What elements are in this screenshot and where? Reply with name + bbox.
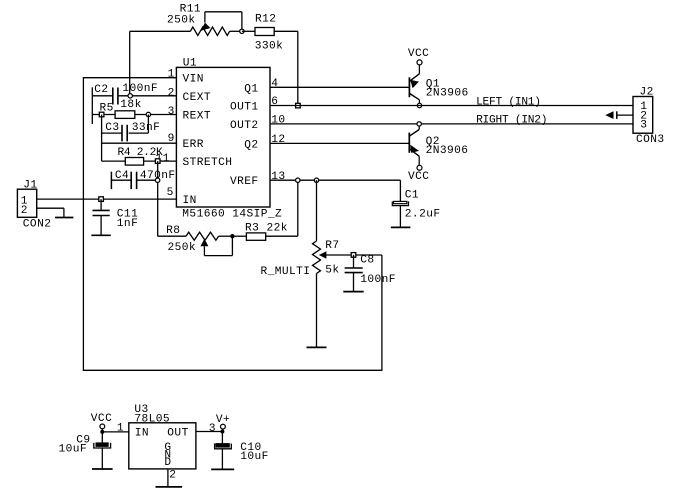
potentiometer R11 250k: [167, 4, 242, 36]
resistor R5 18k: [92, 99, 176, 118]
node Q1 collector junction: [417, 103, 421, 107]
resistor R4 2.2K: [102, 147, 177, 165]
potentiometer R8 250k: [166, 225, 232, 256]
svg-text:330k: 330k: [255, 40, 284, 52]
svg-text:C4: C4: [115, 170, 129, 182]
svg-text:STRETCH: STRETCH: [183, 157, 233, 169]
svg-text:3: 3: [209, 423, 216, 435]
svg-text:LEFT (IN1): LEFT (IN1): [476, 96, 541, 108]
svg-text:3: 3: [640, 120, 647, 132]
svg-text:RIGHT (IN2): RIGHT (IN2): [476, 114, 547, 126]
power VCC Q1: [408, 48, 429, 65]
svg-text:VIN: VIN: [183, 74, 204, 86]
power VCC Q2: [408, 165, 429, 183]
wire ERR pin9: [102, 142, 177, 144]
wire U3 pin3 to V+: [196, 423, 223, 435]
svg-text:2.2uF: 2.2uF: [405, 208, 441, 220]
svg-text:Q2: Q2: [244, 139, 258, 151]
node R5 left junction: [99, 112, 104, 117]
svg-text:R12: R12: [255, 14, 276, 26]
node R5 right junction: [146, 112, 150, 116]
power VCC regulator input: [91, 413, 112, 432]
svg-text:1: 1: [117, 423, 124, 435]
node R8/R3 junction: [230, 234, 234, 238]
connector J2 CON3: [633, 87, 665, 147]
svg-text:12: 12: [271, 134, 285, 146]
svg-text:VREF: VREF: [230, 176, 259, 188]
connector J1 CON2: [17, 179, 51, 230]
wire R12 to OUT1: [297, 31, 299, 105]
svg-text:U1: U1: [183, 58, 197, 70]
wire R3 to VREF: [297, 180, 299, 236]
svg-text:VCC: VCC: [91, 413, 112, 425]
svg-text:5: 5: [167, 187, 174, 199]
wire U3 pin2 to ground: [168, 469, 177, 487]
svg-text:REXT: REXT: [183, 111, 212, 123]
ground C1: [391, 226, 411, 228]
wire OUT2 pin10 RIGHT net: [270, 123, 633, 125]
svg-text:1nF: 1nF: [117, 218, 138, 230]
wire pin12 to Q2 base: [270, 142, 409, 144]
ground C10: [211, 468, 234, 470]
capacitor C2 100nF: [92, 83, 176, 104]
wire VIN left vertical: [82, 77, 84, 370]
svg-text:33nF: 33nF: [132, 122, 161, 134]
svg-text:10uF: 10uF: [59, 444, 88, 456]
wire R11 left vertical to CEXT: [129, 31, 131, 96]
capacitor C11 1nF: [93, 199, 139, 235]
svg-text:C2: C2: [94, 84, 108, 96]
svg-text:R8: R8: [166, 225, 180, 237]
svg-text:CEXT: CEXT: [183, 92, 212, 104]
node CEXT junction: [128, 94, 132, 98]
node VREF junction 2: [314, 178, 318, 182]
svg-text:J2: J2: [640, 87, 654, 99]
net label RIGHT (IN2): [476, 114, 547, 126]
wire VIN pin1: [83, 77, 176, 79]
svg-text:78L05: 78L05: [134, 413, 170, 425]
wire R11 left lead: [130, 30, 191, 32]
wire VIN bottom: [83, 369, 382, 371]
capacitor C4 470nF: [111, 170, 175, 189]
node STRETCH junction: [155, 159, 160, 164]
svg-text:IN: IN: [135, 428, 149, 440]
resistor R3 22k: [232, 223, 297, 241]
node R12/OUT1 junction: [296, 103, 301, 108]
node C10 junction: [220, 430, 224, 434]
svg-text:ERR: ERR: [183, 139, 204, 151]
node Q2 collector junction: [417, 122, 421, 126]
wire J1 pin1 to IN pin5: [37, 198, 177, 200]
svg-text:R_MULTI: R_MULTI: [261, 266, 311, 278]
capacitor C3 33nF: [102, 122, 161, 141]
svg-text:6: 6: [271, 96, 278, 108]
svg-text:R7: R7: [325, 240, 339, 252]
node VREF junction 1: [296, 178, 300, 182]
svg-text:J1: J1: [23, 179, 37, 191]
svg-text:OUT2: OUT2: [230, 120, 259, 132]
svg-text:4: 4: [271, 78, 278, 90]
svg-text:Q1: Q1: [244, 83, 258, 95]
power V+ regulator output: [216, 414, 230, 431]
wire VCC to U3 pin1: [102, 423, 129, 435]
svg-text:22k: 22k: [267, 223, 288, 235]
wire left column R5-C3-ERR-R4: [101, 115, 103, 162]
transistor Q1 2N3906: [409, 65, 468, 104]
svg-text:IN: IN: [183, 195, 197, 207]
svg-text:13: 13: [271, 171, 285, 183]
node C9 junction: [100, 430, 104, 434]
svg-text:3: 3: [168, 106, 175, 118]
node R11 wiper junction: [240, 29, 244, 33]
svg-text:10uF: 10uF: [240, 451, 269, 463]
svg-text:2: 2: [169, 470, 176, 482]
node C8 top junction: [351, 253, 356, 258]
capacitor C10 10uF: [215, 432, 269, 470]
svg-text:5k: 5k: [325, 265, 339, 277]
svg-text:VCC: VCC: [408, 171, 429, 183]
svg-text:18k: 18k: [120, 99, 141, 111]
potentiometer R7 5k R_MULTI: [261, 240, 382, 348]
svg-text:V+: V+: [216, 414, 230, 426]
voltage regulator U3 78L05: [129, 404, 196, 469]
ground U3 pin2: [156, 486, 183, 488]
svg-text:VCC: VCC: [408, 48, 429, 60]
capacitor C1 2.2uF: [392, 180, 440, 227]
node C4 right junction: [155, 178, 159, 182]
ground C11: [91, 234, 110, 236]
node C11 top junction: [99, 197, 104, 202]
input port arrow J2 pin2: [605, 111, 633, 119]
ground J1 pin2: [55, 217, 73, 219]
svg-text:100nF: 100nF: [360, 274, 396, 286]
capacitor C9 10uF: [59, 432, 111, 469]
wire R8 left lead: [158, 235, 186, 237]
svg-text:CON2: CON2: [23, 218, 52, 230]
svg-text:2N3906: 2N3906: [426, 87, 469, 99]
svg-text:250k: 250k: [168, 242, 197, 254]
svg-text:10: 10: [271, 115, 285, 127]
wire J1 pin2 stub: [37, 208, 64, 217]
svg-text:OUT: OUT: [167, 428, 188, 440]
svg-text:R3: R3: [245, 223, 259, 235]
svg-text:2: 2: [168, 87, 175, 99]
svg-text:R4 2.2K: R4 2.2K: [118, 147, 163, 159]
transistor Q2 2N3906: [409, 126, 468, 165]
svg-text:100nF: 100nF: [122, 83, 158, 95]
svg-text:2N3906: 2N3906: [426, 145, 469, 157]
wire OUT1 pin6 LEFT net: [270, 105, 633, 107]
wire STRETCH to R8 vertical: [157, 161, 159, 236]
ground R7: [307, 346, 327, 348]
resistor R12 330k: [242, 14, 298, 53]
svg-text:C1: C1: [405, 189, 419, 201]
IC U1 M51660 14SIP_Z: [156, 58, 286, 221]
svg-text:C3: C3: [105, 122, 119, 134]
ground C9: [92, 468, 113, 470]
svg-text:OUT1: OUT1: [230, 102, 259, 114]
wire pin4 to Q1 base: [270, 86, 409, 88]
ground C8: [343, 291, 363, 293]
svg-text:1: 1: [168, 69, 175, 81]
svg-text:D: D: [164, 457, 171, 469]
capacitor C8 100nF: [345, 255, 396, 292]
svg-text:M51660 14SIP_Z: M51660 14SIP_Z: [182, 209, 282, 221]
wire R5 right to C3: [147, 115, 149, 134]
net label LEFT (IN1): [476, 96, 541, 108]
svg-text:C8: C8: [360, 255, 374, 267]
wire left rail: [91, 87, 93, 124]
svg-text:CON3: CON3: [636, 134, 665, 146]
wire VREF pin13: [270, 179, 400, 181]
wire VIN right vertical to R7 wiper: [381, 255, 383, 371]
svg-text:250k: 250k: [167, 14, 196, 26]
svg-text:2: 2: [21, 205, 28, 217]
wire VREF to R7: [316, 180, 318, 241]
